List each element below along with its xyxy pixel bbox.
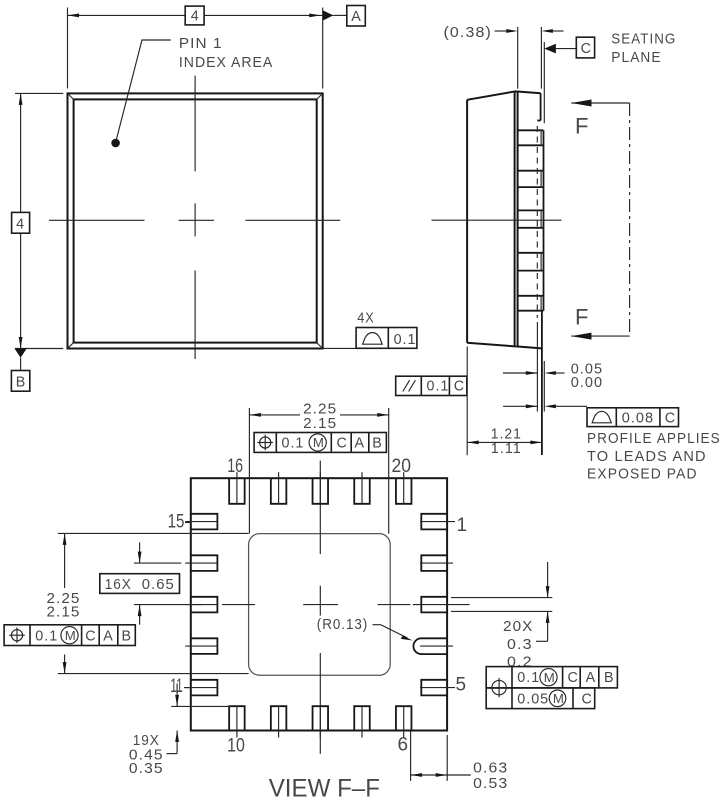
dimension 2.25/2.15 (top) line: [249, 414, 300, 416]
hidden line (lead depth): [536, 126, 538, 318]
svg-text:C: C: [581, 41, 592, 57]
svg-text:M: M: [313, 435, 324, 450]
svg-text:PROFILE APPLIES: PROFILE APPLIES: [587, 430, 721, 447]
svg-text:16X: 16X: [105, 577, 132, 593]
svg-text:PIN 1: PIN 1: [179, 36, 223, 52]
pin 7: [354, 706, 370, 730]
pin 5: [421, 680, 447, 696]
pin 12: [191, 638, 218, 654]
pin 19: [354, 478, 370, 504]
svg-text:C: C: [337, 436, 348, 452]
svg-text:C: C: [582, 691, 593, 707]
body right face lines: [514, 92, 516, 347]
svg-text:A: A: [351, 9, 362, 25]
horizontal centerline: [49, 219, 145, 221]
svg-text:2.15: 2.15: [303, 416, 337, 432]
chamfer top-right corner: [317, 93, 323, 99]
parallelism frame 0.1 C: [396, 376, 467, 395]
vertical centerline: [319, 461, 321, 554]
pin 13: [191, 597, 218, 613]
svg-text:4X: 4X: [357, 310, 374, 326]
dimension 0.63/0.53: [410, 732, 412, 781]
svg-text:M: M: [553, 691, 564, 706]
bottom-right lead frame edge: [541, 311, 543, 455]
pin 3: [421, 597, 447, 613]
svg-text:0.3: 0.3: [507, 637, 533, 653]
pin 20: [396, 478, 412, 504]
chamfer top-left corner: [68, 93, 74, 99]
package outline (bottom view): [191, 478, 447, 730]
datum C flag: [544, 44, 556, 54]
dimension 16X 0.65: [134, 562, 181, 564]
pin 18: [313, 478, 329, 504]
seating plane extension: [543, 42, 545, 123]
svg-text:B: B: [604, 670, 615, 686]
svg-text:B: B: [372, 436, 383, 452]
svg-text:B: B: [122, 628, 133, 644]
dimension 4 (top) value box: [185, 6, 204, 25]
svg-text:0.05: 0.05: [517, 691, 549, 707]
svg-text:0.63: 0.63: [473, 761, 508, 777]
svg-text:C: C: [85, 628, 96, 644]
svg-text:0.2: 0.2: [507, 654, 533, 670]
pin 10: [229, 706, 245, 730]
svg-text:0.1: 0.1: [427, 379, 450, 395]
svg-text:PLANE: PLANE: [611, 49, 661, 66]
chamfer bottom-right corner: [317, 343, 323, 349]
pin 15: [191, 514, 218, 530]
svg-text:10: 10: [227, 736, 245, 757]
svg-text:0.65: 0.65: [142, 577, 175, 593]
pin 8: [313, 706, 329, 730]
pin 11: [191, 680, 218, 696]
svg-text:5: 5: [456, 674, 467, 695]
section line F-F: [629, 103, 631, 336]
svg-text:M: M: [65, 628, 76, 643]
side view centerline: [432, 219, 562, 221]
dimension 1.21/1.11: [467, 441, 542, 443]
pin 1 leader: [117, 40, 171, 139]
lead seating face: [543, 130, 545, 310]
top-right lead frame edge: [540, 93, 542, 120]
svg-text:4: 4: [191, 9, 200, 25]
dimension 4 (top) line: [68, 14, 334, 16]
svg-text:B: B: [16, 374, 27, 390]
svg-text:16: 16: [227, 456, 243, 477]
pin 1: [421, 514, 447, 530]
dimension 20X 0.3/0.2: [451, 597, 552, 599]
svg-text:0.1: 0.1: [394, 332, 417, 348]
svg-text:0.00: 0.00: [571, 375, 603, 391]
svg-text:C: C: [454, 379, 465, 395]
pin 16: [229, 478, 245, 504]
body left extension line: [466, 347, 468, 456]
exposed pad: [249, 534, 391, 676]
svg-text:0.1: 0.1: [35, 628, 58, 644]
svg-text:15: 15: [168, 512, 185, 533]
pin 1 index dot: [111, 139, 120, 148]
svg-text:1.21: 1.21: [491, 427, 522, 443]
datum B flag: [15, 349, 27, 358]
svg-text:F: F: [575, 305, 588, 330]
svg-text:INDEX AREA: INDEX AREA: [179, 55, 273, 71]
svg-text:6: 6: [398, 735, 409, 756]
package body inner edge: [74, 99, 317, 342]
horizontal centerline: [134, 604, 202, 606]
body bottom edge: [467, 343, 542, 349]
body top edge: [467, 91, 540, 99]
svg-text:A: A: [103, 628, 114, 644]
svg-text:C: C: [568, 670, 579, 686]
svg-text:0.35: 0.35: [129, 761, 164, 777]
dimension 4 (top) extension lines: [67, 8, 69, 89]
vertical centerline: [194, 76, 196, 172]
svg-text:20: 20: [392, 456, 412, 477]
svg-text:(0.38): (0.38): [444, 25, 492, 41]
svg-text:1.11: 1.11: [491, 441, 522, 457]
svg-text:C: C: [665, 411, 676, 427]
dimension 2.25/2.15 (left) line: [64, 533, 66, 588]
profile tolerance frame 0.1: [323, 347, 356, 349]
chamfer bottom-left corner: [68, 343, 74, 349]
svg-text:0.1: 0.1: [282, 436, 305, 452]
lead tip extension line: [540, 27, 542, 89]
svg-text:A: A: [355, 436, 366, 452]
position frame (left): [4, 625, 135, 646]
pin 9: [271, 706, 287, 730]
body left edge: [466, 100, 468, 343]
svg-text:1: 1: [457, 515, 468, 536]
svg-text:EXPOSED PAD: EXPOSED PAD: [587, 466, 698, 483]
dimension 0.05/0.00: [503, 372, 537, 374]
pin 17: [271, 478, 287, 504]
svg-text:A: A: [586, 670, 597, 686]
svg-text:VIEW F–F: VIEW F–F: [269, 775, 380, 803]
pin 2: [421, 555, 447, 571]
svg-text:SEATING: SEATING: [611, 31, 676, 48]
svg-text:0.1: 0.1: [517, 670, 540, 686]
svg-text:TO LEADS AND: TO LEADS AND: [587, 448, 707, 465]
dimension 4 (left) line: [20, 93, 22, 348]
svg-text:20X: 20X: [503, 619, 533, 635]
svg-text:M: M: [544, 670, 555, 685]
profile leader: [503, 405, 537, 407]
svg-text:(R0.13): (R0.13): [317, 617, 368, 633]
svg-text:4: 4: [16, 216, 25, 232]
pin 14: [191, 555, 218, 571]
svg-text:F: F: [575, 114, 588, 139]
dimension 2.25/2.15 (left) extension lines: [58, 532, 249, 534]
dimension 4 (left) extension lines: [15, 92, 63, 94]
package body outline (top view): [68, 93, 323, 348]
pin 4 (rounded end): [413, 638, 447, 654]
dimension 2.25/2.15 (top) extension lines: [248, 408, 250, 534]
lead edges (side view): [518, 129, 544, 131]
position frame (right, two rows): [486, 667, 617, 688]
svg-text:0.08: 0.08: [622, 411, 654, 427]
profile tolerance frame 0.08 C: [587, 408, 679, 427]
position frame (top): [254, 433, 386, 453]
svg-text:2.15: 2.15: [47, 604, 81, 620]
dimension 4 (left) value box: [12, 212, 30, 233]
svg-text:0.53: 0.53: [473, 776, 508, 792]
datum A flag: [323, 10, 334, 20]
pin 6: [396, 706, 412, 730]
dimension 19X 0.45/0.35: [171, 705, 230, 707]
lead inner edges: [540, 130, 542, 145]
